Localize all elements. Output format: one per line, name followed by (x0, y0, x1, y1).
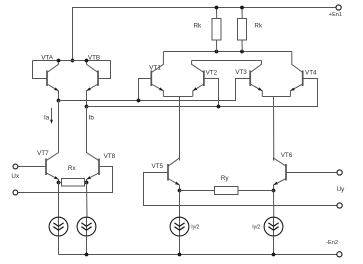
svg-text:-En2: -En2 (326, 240, 338, 246)
svg-text:Rk: Rk (194, 23, 203, 30)
node - VTA collector on base line (57, 59, 61, 63)
wire - VT6 base to Uy upper terminal (286, 172, 337, 174)
svg-text:VT3: VT3 (235, 69, 247, 76)
node - junction of stem on diode base line (71, 59, 75, 63)
node - Iy/2 left on bus (178, 253, 182, 257)
svg-text:Rk: Rk (254, 23, 263, 30)
wire - VT8 base loop to Ux lower terminal (18, 167, 113, 193)
node - VTA emitter / VT7 collector junction on bus1 (57, 99, 61, 103)
wire - VT5 base loop to Uy lower terminal (144, 173, 338, 206)
svg-text:Ry: Ry (221, 175, 230, 182)
node - VT8 emitter junction (85, 181, 89, 185)
wire - VTA/VTB common base-collector line (33, 60, 111, 62)
wire - VT3/VT4 emitter junction to VT6 collector (262, 97, 290, 161)
wire - VT1 base to bus1 (139, 79, 152, 101)
wire - negative supply bus to -En2 (59, 254, 337, 256)
node - Rk2 top on supply rail (240, 6, 244, 10)
transistor VTB (diode-connected NPN) (87, 54, 111, 106)
svg-text:VT8: VT8 (104, 153, 116, 160)
svg-text:VT2: VT2 (206, 69, 218, 76)
current source Iy/2 (left) (170, 191, 199, 255)
svg-text:VT4: VT4 (305, 70, 317, 77)
transistor VT2 (192, 61, 218, 97)
terminal Ux lower (13, 190, 18, 195)
wire - base bus 2 (VTB emitter to VT2/VT4 bases) (87, 79, 318, 107)
transistor VT5 (152, 158, 180, 191)
svg-text:Uy: Uy (337, 186, 346, 193)
current source Iy/2 (right) (252, 191, 283, 255)
transistor VT3 (235, 61, 262, 97)
svg-text:+En1: +En1 (329, 12, 342, 18)
terminal Uy lower (337, 203, 342, 208)
node - VTB collector on base line (85, 59, 89, 63)
transistor VT4 (290, 52, 317, 97)
svg-text:Ib: Ib (89, 115, 95, 122)
svg-text:VT5: VT5 (152, 163, 164, 170)
node - VT2 base junction on bus2 (217, 105, 221, 109)
wire - VT2 base to bus2 (204, 79, 219, 107)
svg-text:VT7: VT7 (37, 150, 49, 157)
terminal Ux upper (13, 164, 18, 169)
transistor VT6 (274, 152, 293, 190)
node - Rk1 bottom on collector rail (215, 50, 219, 54)
svg-text:VTA: VTA (41, 54, 54, 61)
label Ia with current arrow (44, 108, 53, 124)
svg-text:Iy/2: Iy/2 (191, 224, 199, 230)
label Ux (11, 173, 20, 180)
resistor Rk (left) (194, 8, 222, 52)
node - VT1 base junction on bus1 (137, 99, 141, 103)
node - VT7 emitter junction (57, 181, 61, 185)
node - VT6 emitter junction (272, 189, 276, 193)
node - Iy/2 right on bus (272, 253, 276, 257)
transistor VTA (diode-connected NPN) (33, 54, 59, 100)
wire - VT2/VT3 collector tie line (192, 60, 262, 62)
label Uy (337, 186, 346, 193)
svg-text:VTB: VTB (88, 54, 100, 61)
node - Rk1 top on supply rail (215, 6, 219, 10)
node - left pair source on bus (85, 253, 89, 257)
wire - VT1/VT2 emitter junction to VT5 collector (164, 97, 193, 161)
transistor VT1 (149, 52, 163, 97)
terminal +En1 (329, 5, 342, 18)
wire - top supply rail from VTA/VTB node to +En1 (73, 8, 337, 61)
node - Rk2 bottom on collector rail (240, 50, 244, 54)
svg-text:Iy/2: Iy/2 (252, 224, 260, 230)
svg-text:Rx: Rx (68, 165, 77, 172)
transistor VT8 (87, 107, 116, 183)
resistor Rx (59, 165, 88, 186)
terminal Uy upper (337, 170, 342, 175)
current source (under VT7 emitter) (49, 183, 68, 255)
node - VTB emitter / VT8 collector junction on bus2 (85, 105, 89, 109)
terminal -En2 (326, 240, 342, 257)
svg-text:VT6: VT6 (281, 152, 293, 159)
svg-text:VT1: VT1 (149, 65, 161, 72)
wire - VT7 base to Ux upper terminal (18, 166, 46, 168)
resistor Rk (right) (238, 8, 263, 52)
svg-text:Ux: Ux (11, 173, 20, 180)
resistor Ry (180, 175, 274, 195)
node - VT5 emitter junction (178, 189, 182, 193)
svg-text:Ia: Ia (44, 115, 50, 122)
transistor VT7 (37, 101, 58, 183)
wire - base bus 1 (VTA emitter to VT1/VT3 bases) (59, 79, 251, 101)
wire - collector rail to load resistors (VT1/VT4) (164, 51, 292, 53)
label Ib (89, 115, 95, 122)
current source (under VT8 emitter) (77, 183, 96, 255)
